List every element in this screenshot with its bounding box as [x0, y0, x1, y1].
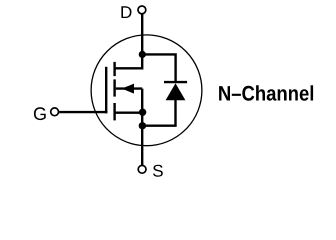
wire gate lead [59, 111, 107, 113]
transistor Q1 channel segment drain [113, 62, 115, 76]
transistor Q1 body circle [91, 35, 202, 146]
diode D1 cathode bar [164, 81, 187, 83]
node G label [34, 107, 46, 120]
diode D1 triangle [166, 83, 186, 100]
wire drain stub [115, 54, 143, 68]
node D label [121, 6, 131, 18]
wire drain to diode cathode [142, 54, 175, 83]
wire body stub [116, 87, 143, 89]
node S label [153, 165, 163, 177]
transistor Q1 channel segment source [113, 103, 115, 120]
wire source stub [115, 111, 143, 113]
value label N-Channel [219, 85, 313, 100]
wire drain lead [141, 14, 143, 56]
junction source dot upper [139, 109, 146, 116]
terminal S circle [138, 165, 146, 173]
transistor Q1 body arrow [122, 84, 134, 94]
transistor Q1 channel segment body [113, 79, 115, 96]
junction drain dot [139, 51, 146, 58]
wire source vertical [141, 89, 143, 165]
junction source dot lower [139, 122, 146, 129]
terminal G circle [51, 108, 59, 116]
transistor Q1 gate line [105, 67, 107, 114]
terminal D circle [138, 6, 146, 14]
wire diode anode to source [142, 99, 175, 126]
